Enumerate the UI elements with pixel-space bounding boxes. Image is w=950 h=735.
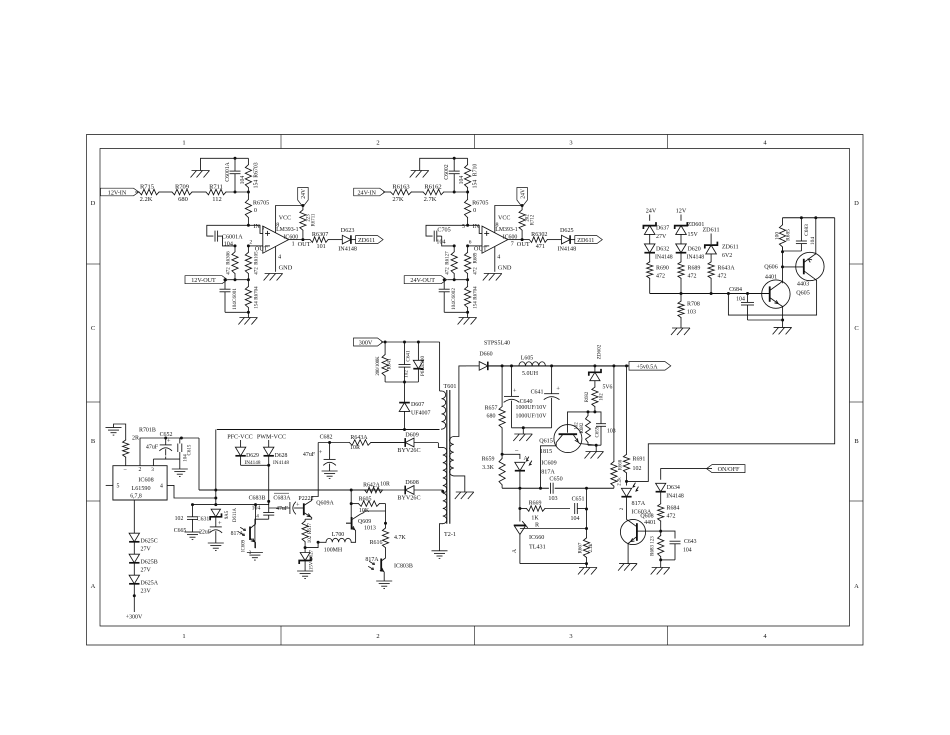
svg-text:154: 154 [253, 180, 259, 189]
net flag +5v0.5A [629, 362, 671, 371]
wire [649, 234, 651, 244]
svg-text:IC608: IC608 [138, 477, 153, 483]
node [453, 278, 469, 281]
resistor R6127 [446, 246, 458, 280]
svg-text:C665: C665 [174, 528, 187, 534]
resistor R691 [623, 366, 645, 482]
svg-text:22uF: 22uF [199, 530, 211, 536]
label IC609 [541, 461, 562, 483]
svg-text:5: 5 [462, 224, 465, 230]
svg-text:112: 112 [212, 196, 222, 203]
svg-text:+: + [556, 386, 560, 393]
svg-text:R708: R708 [687, 302, 700, 308]
ground [483, 274, 502, 281]
diode D629 [235, 447, 260, 466]
svg-text:104: 104 [571, 516, 580, 522]
capacitor C652 [146, 432, 173, 456]
svg-text:ON/OFF: ON/OFF [718, 467, 740, 473]
label OUT fb [255, 245, 268, 252]
ground [106, 428, 122, 436]
svg-text:5.0UH: 5.0UH [522, 371, 539, 377]
node [453, 157, 456, 160]
svg-text:B: B [854, 438, 859, 445]
svg-text:R684: R684 [667, 506, 680, 512]
svg-text:D623: D623 [341, 228, 355, 234]
wire VCC [495, 206, 522, 234]
svg-text:R668: R668 [619, 459, 624, 470]
svg-text:C651: C651 [572, 497, 585, 503]
transistor Q615 [539, 425, 596, 489]
node [522, 426, 525, 429]
svg-text:5: 5 [117, 483, 120, 489]
svg-text:R641: R641 [387, 358, 393, 370]
opto IC803B [365, 556, 412, 581]
svg-text:C615: C615 [188, 444, 193, 455]
wire [710, 254, 712, 262]
svg-text:R712: R712 [531, 214, 536, 225]
+5v rail [488, 365, 629, 367]
resistor R689 [465, 246, 479, 280]
svg-text:472: 472 [254, 267, 259, 275]
svg-text:104: 104 [683, 548, 692, 554]
wire [587, 410, 590, 445]
node [680, 292, 750, 295]
wire [159, 191, 172, 193]
inductor L605 [519, 356, 546, 377]
wire [225, 311, 248, 313]
svg-text:1000UF/10V: 1000UF/10V [516, 414, 548, 420]
node [224, 278, 227, 281]
node [384, 522, 387, 525]
node [247, 311, 250, 314]
svg-text:OUT: OUT [517, 241, 530, 248]
label C682 [320, 435, 333, 441]
wire [133, 584, 136, 612]
core [447, 390, 450, 524]
svg-text:R711: R711 [209, 183, 223, 190]
svg-text:0: 0 [473, 208, 476, 214]
svg-text:R6162: R6162 [424, 183, 441, 190]
label +300V [126, 615, 143, 621]
svg-text:VCC: VCC [498, 216, 510, 222]
svg-text:R617: R617 [308, 523, 313, 534]
resistor R685 [775, 218, 792, 252]
svg-text:R691: R691 [633, 457, 646, 463]
wire c682net [312, 443, 319, 497]
resistor R641 [376, 342, 393, 382]
svg-text:P6KE200: P6KE200 [420, 355, 426, 376]
wire [385, 504, 387, 528]
resistor R6162 [423, 183, 444, 203]
svg-text:C652: C652 [160, 432, 173, 438]
wire [201, 158, 249, 170]
node [247, 191, 250, 194]
node [727, 292, 730, 295]
svg-text:+5v0.5A: +5v0.5A [637, 364, 659, 370]
ground [432, 551, 448, 559]
node [214, 489, 217, 500]
svg-text:D660: D660 [479, 352, 492, 358]
svg-text:5V6: 5V6 [603, 385, 613, 391]
ground [618, 564, 637, 571]
svg-text:103: 103 [687, 310, 696, 316]
wire [661, 531, 675, 538]
node [521, 204, 524, 207]
svg-text:+300V: +300V [126, 615, 143, 621]
wire [228, 279, 248, 281]
primary wire [217, 429, 440, 431]
wire [680, 234, 682, 244]
node [328, 441, 331, 444]
node [781, 265, 784, 268]
svg-text:154: 154 [473, 180, 479, 189]
diode D625 [557, 228, 576, 253]
svg-text:472: 472 [446, 267, 451, 275]
wire [385, 381, 418, 383]
label OUT [511, 241, 530, 248]
node [585, 562, 588, 565]
svg-text:104: 104 [736, 297, 745, 303]
svg-text:C631: C631 [197, 517, 210, 523]
svg-text:B: B [91, 438, 96, 445]
zener D627 [299, 548, 314, 571]
capacitor C6002 [439, 280, 458, 313]
svg-text:2R: 2R [132, 436, 139, 442]
label 1000UF [516, 405, 548, 420]
svg-text:P2222: P2222 [298, 496, 313, 502]
svg-text:R667: R667 [579, 542, 584, 553]
node [317, 541, 320, 544]
capacitor C6002 [444, 158, 465, 192]
node [403, 381, 406, 384]
svg-text:102: 102 [308, 535, 313, 543]
svg-text:T2-1: T2-1 [444, 532, 456, 538]
resistor R701B [123, 428, 156, 466]
svg-text:12V: 12V [676, 209, 687, 215]
svg-text:IN4148: IN4148 [687, 255, 705, 261]
label VCC [276, 216, 291, 229]
svg-text:Q609A: Q609A [316, 501, 334, 507]
svg-text:680: 680 [487, 414, 496, 420]
svg-text:D: D [91, 200, 96, 207]
svg-text:1013: 1013 [364, 526, 376, 532]
wire - input [248, 240, 262, 246]
label C683A [273, 495, 291, 512]
resistor R683 [651, 531, 664, 560]
top rail [783, 217, 835, 219]
node [164, 437, 183, 440]
svg-text:104: 104 [184, 454, 189, 462]
svg-text:C6002: C6002 [444, 164, 450, 179]
resistor R689b [678, 262, 700, 294]
wire R605 col [350, 490, 352, 504]
node [501, 453, 504, 456]
svg-text:27V: 27V [141, 568, 152, 574]
wire [649, 253, 651, 262]
svg-text:C: C [854, 325, 858, 332]
label IC [495, 227, 518, 240]
svg-text:R616: R616 [370, 540, 383, 546]
svg-text:R6704: R6704 [474, 286, 479, 300]
capacitor C6001A [225, 158, 246, 192]
svg-text:D: D [854, 200, 859, 207]
wire [318, 442, 349, 444]
transformer T601 primary [440, 391, 446, 430]
tap node [441, 490, 444, 493]
svg-text:154: 154 [474, 301, 479, 309]
label IC [276, 227, 299, 240]
capacitor C631 [197, 517, 222, 544]
svg-text:3: 3 [151, 467, 154, 473]
diode D632 [644, 244, 672, 261]
resistor R6704 [245, 280, 259, 313]
capacitor C683A [269, 493, 300, 514]
svg-text:R6163: R6163 [392, 183, 409, 190]
net flag 12V-IN [101, 188, 139, 196]
svg-text:472: 472 [656, 274, 665, 280]
svg-text:15V D627: 15V D627 [310, 549, 315, 570]
wire [442, 236, 455, 246]
node [466, 311, 469, 314]
label OUT fb [474, 245, 487, 252]
node [304, 546, 307, 549]
wire [114, 424, 126, 440]
svg-text:471: 471 [536, 244, 545, 250]
svg-text:TL431: TL431 [529, 545, 546, 551]
svg-text:24V: 24V [646, 209, 657, 215]
ground [671, 328, 690, 335]
wire [508, 239, 522, 241]
svg-text:R6703: R6703 [253, 162, 259, 177]
resistor R690 [647, 262, 669, 294]
ground [578, 564, 597, 575]
transistor Q606 [762, 265, 790, 320]
svg-text:R643A: R643A [350, 435, 368, 441]
svg-text:PFC-VCC: PFC-VCC [227, 434, 253, 440]
transistor Q605 [796, 218, 824, 297]
resistor R616 [370, 528, 407, 556]
svg-text:200/100K: 200/100K [376, 356, 381, 376]
node [234, 191, 237, 194]
resistor R6711 [300, 206, 317, 240]
wire primary drop [215, 430, 217, 505]
wire D608 net [199, 489, 383, 491]
ground [172, 459, 188, 477]
svg-text:817A: 817A [365, 557, 379, 563]
svg-text:R6302: R6302 [531, 232, 547, 238]
wire [383, 191, 390, 193]
resistor R709 [172, 183, 192, 203]
power flag 24V [517, 188, 528, 207]
wire [241, 456, 269, 501]
svg-text:C683: C683 [804, 224, 810, 236]
resistor R715 [139, 183, 159, 203]
capacitor C640 [504, 366, 532, 428]
resistor R6302 [522, 232, 561, 250]
svg-text:3.3K: 3.3K [482, 465, 494, 471]
svg-text:47uF: 47uF [146, 445, 159, 451]
svg-text:C650: C650 [549, 477, 562, 483]
svg-text:L61590: L61590 [131, 486, 150, 492]
capacitor C683B [263, 501, 274, 519]
svg-text:+: + [513, 387, 517, 394]
pin5 stub [106, 484, 113, 486]
svg-text:PWM-VCC: PWM-VCC [257, 434, 286, 440]
ground [455, 492, 474, 499]
capacitor C641 [531, 366, 561, 428]
svg-text:R6307: R6307 [312, 232, 328, 238]
svg-text:R690: R690 [656, 266, 669, 272]
svg-text:104: 104 [232, 302, 238, 310]
node [267, 464, 270, 503]
diode D623 [338, 228, 357, 253]
net flag ZD611 [356, 236, 384, 244]
diode D620 [676, 244, 705, 261]
svg-text:STPS5L40: STPS5L40 [484, 341, 510, 347]
node [453, 244, 469, 247]
svg-text:6,7,8: 6,7,8 [130, 494, 142, 500]
ground [238, 312, 257, 324]
svg-text:R682: R682 [585, 391, 590, 402]
ground [297, 571, 313, 579]
svg-text:IC660: IC660 [529, 535, 544, 541]
node [466, 191, 469, 194]
svg-text:1000UF/10V: 1000UF/10V [516, 405, 548, 411]
capacitor C683 [796, 218, 816, 251]
wire [680, 253, 682, 262]
capacitor C643 [670, 539, 697, 560]
svg-text:C641: C641 [406, 350, 412, 362]
capacitor C650 [548, 483, 557, 502]
border frame [87, 135, 864, 646]
label GND [279, 264, 293, 271]
resistor R667 [579, 538, 595, 564]
wire GND [276, 246, 282, 271]
svg-text:101: 101 [317, 244, 326, 250]
diode D608 [383, 480, 443, 502]
svg-text:A: A [854, 583, 859, 590]
wire [255, 504, 257, 506]
svg-text:LM393-1: LM393-1 [495, 227, 518, 233]
resistor R712 [519, 206, 536, 240]
wire [381, 341, 440, 343]
capacitor C705 [434, 228, 450, 246]
wire [444, 191, 468, 193]
svg-text:R643A: R643A [718, 266, 736, 272]
svg-text:680: 680 [178, 196, 188, 203]
svg-text:472: 472 [474, 267, 479, 275]
svg-text:IN4148: IN4148 [338, 247, 357, 253]
net flag ON/OFF [707, 465, 746, 473]
svg-text:R6711: R6711 [311, 213, 316, 226]
base rail [650, 293, 770, 295]
svg-text:Q608: Q608 [640, 513, 653, 519]
label T2-1 [444, 532, 456, 538]
node [585, 527, 588, 530]
node [781, 250, 784, 253]
label PFC-VCC [227, 434, 253, 440]
net flag ZD611 [575, 236, 603, 244]
svg-text:27K: 27K [392, 196, 404, 203]
resistor R6307 [303, 232, 342, 250]
svg-text:Q605: Q605 [796, 291, 810, 297]
wire [255, 519, 269, 548]
diode D609 [371, 433, 439, 455]
label T601 [444, 384, 457, 390]
wire [426, 225, 468, 236]
svg-text:1K: 1K [531, 516, 539, 522]
resistor R668 [611, 366, 624, 488]
diode P6KE200 [413, 342, 426, 382]
svg-text:C659: C659 [596, 426, 601, 437]
svg-text:4403: 4403 [797, 282, 809, 288]
svg-text:OUT: OUT [474, 245, 487, 252]
wire [241, 440, 269, 447]
wire [223, 236, 236, 246]
svg-text:1: 1 [182, 140, 185, 147]
zener ZD602 [589, 344, 603, 387]
resistor R643A-2 [708, 262, 735, 294]
wire [207, 225, 249, 236]
capacitor C682 [303, 443, 336, 472]
opto IC609 transistor [231, 505, 260, 556]
svg-text:R669: R669 [529, 501, 542, 507]
node [301, 204, 304, 207]
svg-text:IC803B: IC803B [394, 564, 413, 570]
wire [502, 454, 520, 459]
zener D637 [643, 223, 669, 240]
diode D607 [399, 382, 430, 430]
label R [535, 522, 540, 528]
wire base 608 [646, 530, 661, 532]
label 12V [676, 209, 687, 215]
svg-text:300V: 300V [359, 340, 373, 346]
svg-text:4401: 4401 [765, 275, 777, 281]
wire + input [468, 225, 482, 233]
node IN [247, 224, 265, 232]
svg-text:4.7K: 4.7K [394, 535, 406, 541]
ground [322, 471, 338, 479]
wire [226, 191, 248, 193]
ground [585, 445, 604, 458]
resistor R6705 [465, 192, 489, 225]
svg-text:R689: R689 [474, 252, 479, 263]
capacitor C651 [571, 497, 587, 522]
svg-text:L605: L605 [521, 356, 534, 362]
svg-text:12V-IN: 12V-IN [108, 190, 127, 196]
wire pin4 route [167, 485, 216, 498]
wire - input [468, 240, 482, 246]
svg-text:R701B: R701B [139, 428, 156, 434]
op-amp IC600 [263, 226, 289, 253]
svg-text:12V-OUT: 12V-OUT [191, 278, 216, 284]
TL431 IC660 [512, 522, 546, 564]
svg-text:3: 3 [569, 633, 572, 640]
svg-text:D607: D607 [411, 402, 424, 408]
svg-text:D625: D625 [560, 228, 574, 234]
node [350, 489, 353, 506]
ground [651, 560, 670, 575]
label 24V [646, 209, 657, 215]
resistor R708 [678, 294, 700, 329]
svg-text:6V2: 6V2 [722, 253, 732, 259]
LED IC603A [621, 481, 651, 519]
svg-text:Q606: Q606 [764, 265, 778, 271]
svg-text:23V: 23V [141, 589, 152, 595]
zener ZD601 [675, 222, 705, 238]
svg-text:24V: 24V [301, 188, 307, 199]
ground [191, 171, 210, 178]
